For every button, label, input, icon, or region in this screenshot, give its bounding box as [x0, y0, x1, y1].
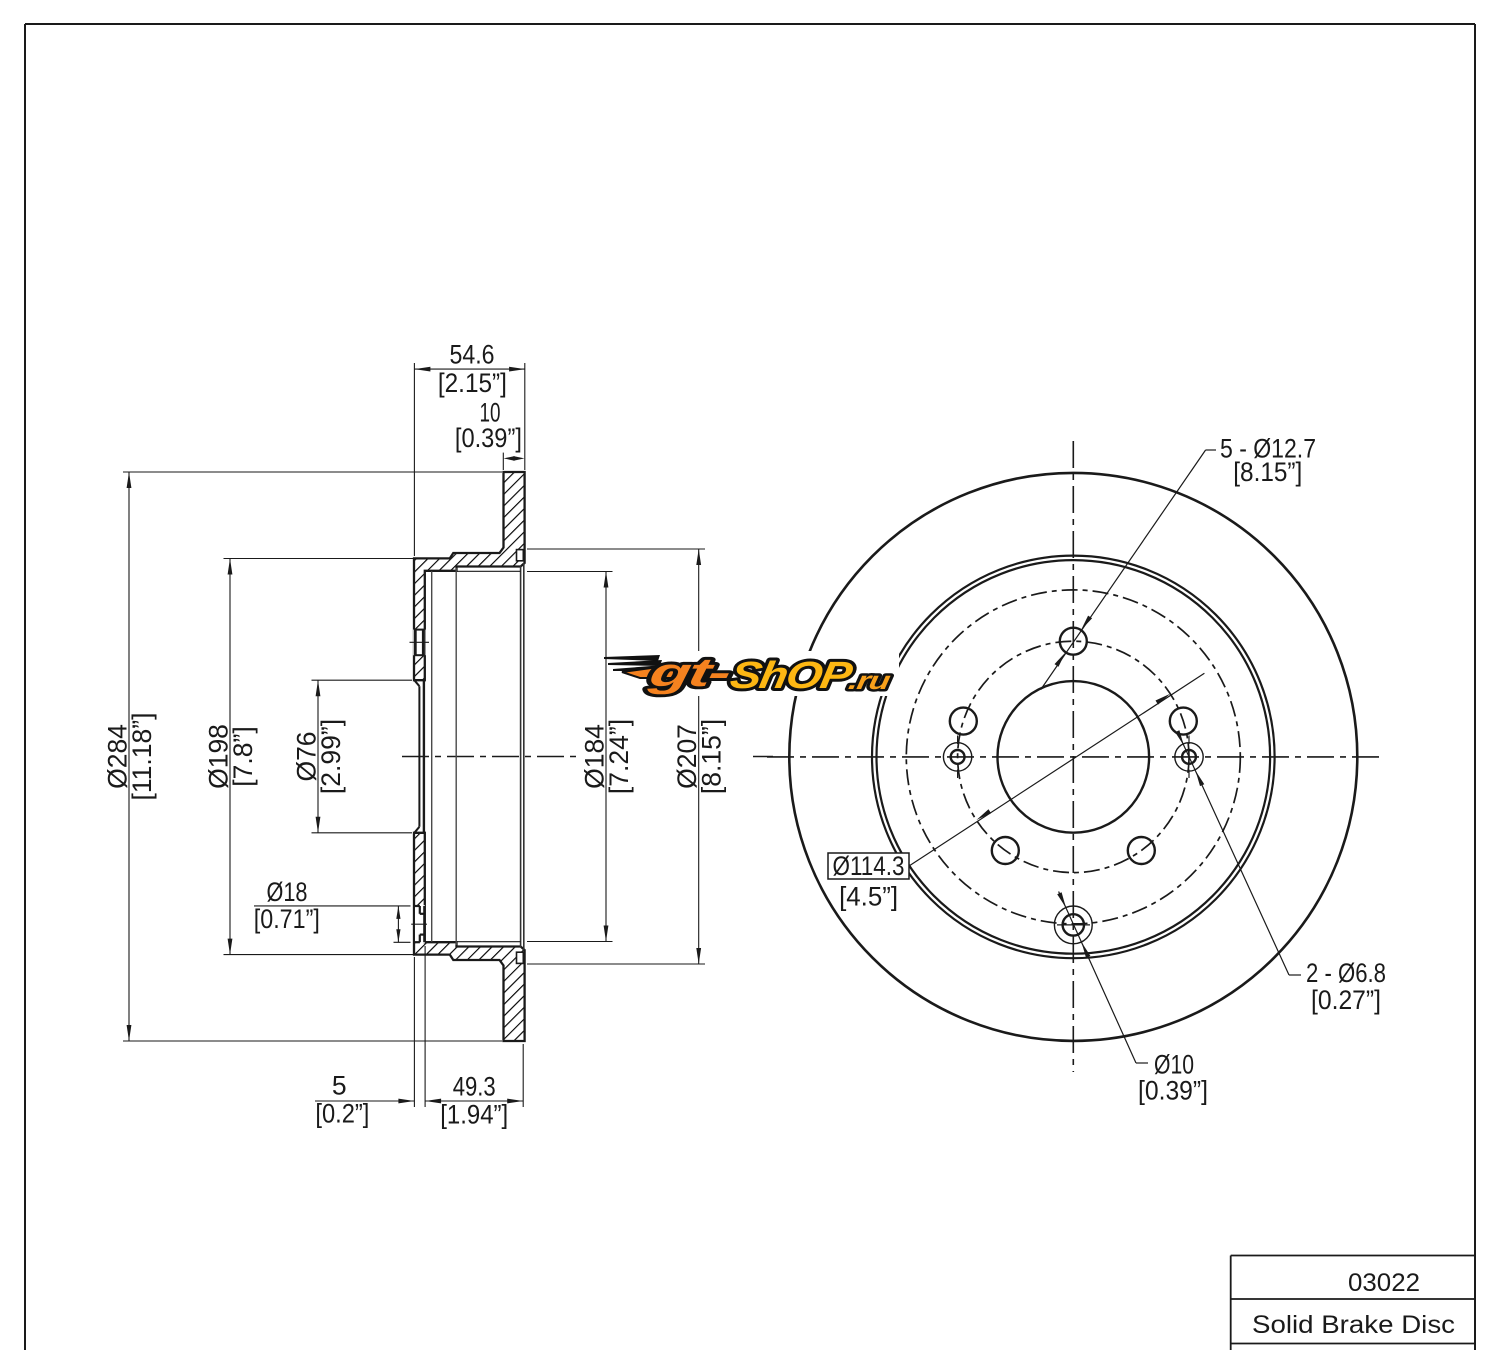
svg-text:[2.99”]: [2.99”]	[316, 719, 346, 794]
svg-text:[0.2”]: [0.2”]	[315, 1098, 369, 1128]
svg-text:[7.24”]: [7.24”]	[604, 719, 634, 794]
svg-text:.ru: .ru	[846, 667, 892, 695]
svg-text:[8.15”]: [8.15”]	[1233, 457, 1302, 487]
svg-text:ShOP: ShOP	[727, 654, 856, 697]
svg-text:[4.5”]: [4.5”]	[839, 882, 898, 912]
svg-text:[7.8”]: [7.8”]	[228, 726, 258, 786]
svg-text:2 - Ø6.8: 2 - Ø6.8	[1306, 958, 1386, 988]
svg-text:[8.15”]: [8.15”]	[697, 719, 727, 794]
svg-text:[0.39”]: [0.39”]	[455, 423, 522, 453]
svg-text:Ø114.3: Ø114.3	[833, 851, 905, 881]
svg-text:Solid Brake Disc: Solid Brake Disc	[1252, 1311, 1455, 1339]
svg-text:[2.15”]: [2.15”]	[438, 368, 507, 398]
svg-text:[11.18”]: [11.18”]	[127, 713, 157, 801]
svg-text:[0.39”]: [0.39”]	[1138, 1076, 1208, 1106]
svg-text:Ø18: Ø18	[267, 877, 308, 907]
svg-text:gt-: gt-	[645, 650, 734, 695]
svg-text:03022: 03022	[1348, 1269, 1420, 1297]
svg-text:[1.94”]: [1.94”]	[440, 1099, 508, 1129]
svg-text:[0.71”]: [0.71”]	[254, 904, 320, 934]
svg-text:5: 5	[332, 1071, 347, 1101]
svg-text:54.6: 54.6	[450, 340, 495, 370]
svg-text:[0.27”]: [0.27”]	[1311, 985, 1381, 1015]
svg-text:49.3: 49.3	[453, 1072, 496, 1102]
